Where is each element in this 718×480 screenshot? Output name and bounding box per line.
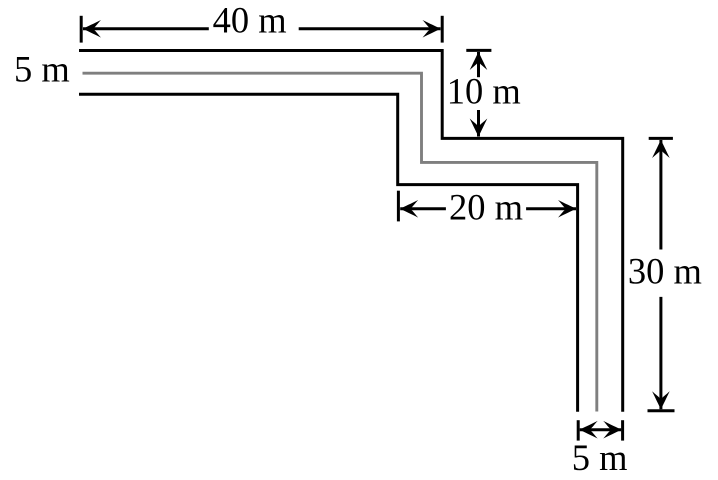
dimension 10 m : upper arrowhead (pointing up) <box>470 52 488 70</box>
dimension 10 m : top tick <box>466 49 491 52</box>
dimension 40 m : left line segment <box>83 27 209 30</box>
dimension 20 m : left line segment <box>400 207 446 210</box>
dimension 40 m : right line segment <box>299 27 441 30</box>
dimension 5 m (bottom) : right arrowhead <box>603 421 621 439</box>
svg-text:5 m: 5 m <box>572 437 628 478</box>
dimension 30 m : top tick <box>649 137 673 140</box>
dimension 40 m : left tick <box>80 16 83 43</box>
svg-text:20 m: 20 m <box>449 186 523 227</box>
dimension 5 m (bottom) : left arrowhead <box>580 421 598 439</box>
dimension 30 m : upper stem <box>659 140 662 250</box>
dimension 40 m : right arrowhead <box>423 20 441 38</box>
dimension 30 m : lower arrowhead (pointing down) <box>652 391 670 409</box>
dimension 40 m : right tick <box>441 16 444 43</box>
dimension 30 m : upper arrowhead (pointing up) <box>652 140 670 158</box>
dimension 20 m : right arrowhead <box>558 200 576 218</box>
dimension 20 m : left tick <box>397 191 400 222</box>
dimension 20 m : left arrowhead <box>400 200 418 218</box>
dimension 5 m (bottom) : right tick <box>621 420 624 440</box>
dimension 30 m : lower stem <box>659 297 662 409</box>
svg-text:30 m: 30 m <box>628 250 702 291</box>
dimension 40 m : left arrowhead <box>83 20 101 38</box>
dimension 20 m : right line segment <box>526 207 576 210</box>
road inner edge (bottom-left boundary of path) <box>79 94 578 412</box>
road centerline (gray) <box>83 73 597 411</box>
dimension 30 m : bottom tick <box>648 409 675 412</box>
dimension 10 m : upper stem <box>477 52 480 77</box>
road outer edge (top-right boundary of path) <box>79 51 623 412</box>
dimension 10 m : lower stem <box>477 110 480 137</box>
dimension 10 m : lower arrowhead (pointing down) <box>470 119 488 137</box>
dimension 5 m (bottom) : left tick <box>577 420 580 440</box>
svg-text:10 m: 10 m <box>447 71 521 112</box>
dimension 5 m (bottom) : line <box>580 428 622 431</box>
svg-text:5 m: 5 m <box>14 49 70 90</box>
svg-text:40 m: 40 m <box>213 0 287 41</box>
